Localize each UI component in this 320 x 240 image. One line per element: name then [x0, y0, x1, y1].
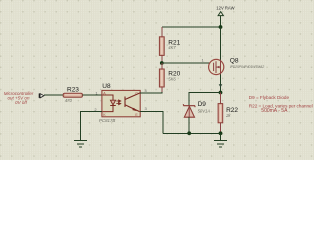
svg-text:12V RAW: 12V RAW [216, 6, 234, 11]
resistor R21 [159, 27, 180, 63]
wire U8 pin3 to bottom rail [140, 112, 163, 134]
node junction D9-rail [187, 131, 191, 135]
wire top rail [162, 26, 221, 28]
svg-text:0V off: 0V off [15, 100, 28, 105]
zener diode D9 [183, 101, 210, 117]
resistor R20 [159, 63, 180, 94]
resistor R23 [63, 87, 82, 103]
svg-text:470: 470 [65, 98, 73, 103]
phototransistor inside U8 [125, 93, 140, 112]
LED light arrows [116, 100, 121, 105]
LED inside U8 [102, 95, 115, 112]
Microcontroller note text [4, 91, 34, 105]
svg-text:D9: D9 [198, 101, 207, 108]
wire drain rail [189, 93, 220, 106]
svg-text:IPD25P04P401WTMA2: IPD25P04P401WTMA2 [230, 65, 264, 69]
node junction top [219, 25, 223, 29]
svg-text:Q8: Q8 [230, 57, 239, 64]
power symbol arrow [218, 12, 223, 27]
svg-text:5K6: 5K6 [168, 76, 176, 81]
background grid [0, 0, 314, 160]
wire U8 pin2 to ground [81, 112, 102, 140]
svg-text:4K7: 4K7 [168, 45, 176, 50]
wire U8 pin4 to R20 [140, 92, 162, 93]
svg-text:U8: U8 [102, 83, 111, 90]
wire R22 to ground [220, 133, 222, 140]
svg-text:50V1A: 50V1A [198, 108, 211, 113]
input port arrow [39, 94, 44, 98]
node junction gate [160, 61, 164, 65]
resistor R22 [218, 93, 238, 134]
transistor Q8 [209, 57, 265, 87]
optocoupler U8 [99, 83, 140, 123]
svg-text:PC817B: PC817B [99, 118, 115, 123]
wire port to R23 [44, 94, 63, 96]
wire D9 anode to rail [188, 117, 190, 133]
wire bottom rail [163, 132, 221, 134]
annotation note [249, 95, 313, 114]
ground (U8 pin2) [74, 141, 87, 148]
wire R23 to U8 pin1 [82, 94, 102, 96]
svg-text:R23: R23 [67, 87, 79, 94]
node junction drain [219, 91, 223, 95]
wire Q8 drain-source vertical [220, 27, 222, 93]
ground (load return) [214, 141, 227, 148]
svg-text:D9 = Flyback Diode: D9 = Flyback Diode [249, 95, 290, 100]
svg-text:2k: 2k [225, 113, 231, 118]
wire gate [162, 62, 213, 64]
node junction R22-rail [219, 131, 223, 135]
svg-text:500mA - 5A: 500mA - 5A [261, 108, 288, 114]
